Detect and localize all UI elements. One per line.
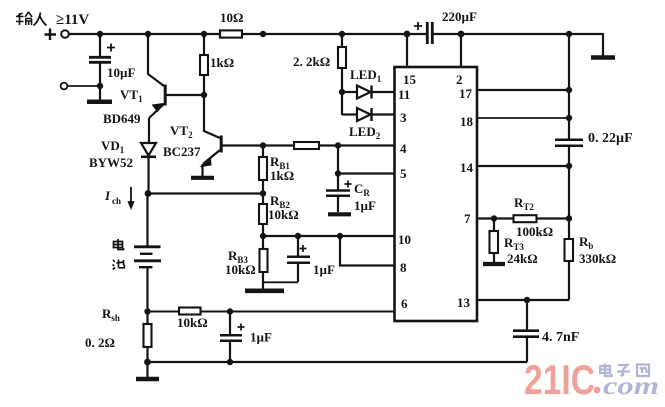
resistor RB2 — [259, 204, 267, 224]
svg-text:6: 6 — [401, 296, 408, 311]
resistor RT2 — [514, 215, 537, 222]
svg-text:1µF: 1µF — [250, 330, 272, 345]
svg-text:18: 18 — [460, 114, 474, 129]
svg-text:≥11V: ≥11V — [56, 12, 89, 28]
resistor RB1 — [259, 157, 267, 180]
svg-text:BD649: BD649 — [103, 111, 141, 126]
capacitor 10uF — [89, 34, 115, 100]
ground 10uF — [87, 100, 112, 105]
wire top rail left — [69, 33, 220, 35]
wire bottom rail — [148, 361, 528, 363]
svg-text:10Ω: 10Ω — [220, 10, 243, 25]
wire 2.2k resistor stem — [341, 34, 343, 115]
svg-text:5: 5 — [400, 166, 407, 181]
svg-text:10kΩ: 10kΩ — [268, 207, 299, 222]
label dianchi (battery) chinese glyphs — [113, 239, 125, 270]
svg-text:4. 7nF: 4. 7nF — [542, 330, 579, 345]
svg-text:220µF: 220µF — [442, 9, 477, 24]
ground Rsh — [136, 362, 159, 379]
resistor Rsh — [144, 324, 152, 347]
svg-text:8: 8 — [400, 260, 407, 275]
ground right top — [591, 55, 615, 60]
svg-text:17: 17 — [459, 86, 473, 101]
capacitor 4.7nF — [513, 300, 539, 362]
LED1 — [342, 86, 394, 99]
wire RB chain vertical — [262, 146, 264, 290]
svg-text:1µF: 1µF — [313, 262, 335, 277]
wire pin17 line — [477, 89, 569, 91]
transistor VT2 — [201, 136, 263, 177]
input terminal circle positive — [61, 30, 69, 38]
resistor 10R top — [220, 30, 242, 37]
wire node Ich horizontal — [148, 192, 263, 194]
wire battery top lead — [146, 194, 148, 246]
svg-text:2: 2 — [456, 72, 463, 87]
wire pin14 line — [477, 165, 569, 167]
svg-text:1µF: 1µF — [354, 198, 376, 213]
resistor 2.2k — [338, 47, 346, 68]
capacitor 220uF — [414, 22, 432, 44]
battery BT — [134, 247, 161, 267]
wire pin4 line — [263, 144, 394, 146]
svg-text:7: 7 — [464, 211, 471, 226]
input terminal circle negative — [61, 83, 68, 90]
diode VD1 — [141, 143, 156, 193]
svg-text:BYW52: BYW52 — [89, 155, 133, 170]
input plus terminal marker — [45, 29, 57, 41]
resistor RT3 stem and ground — [483, 219, 505, 265]
resistor bodies — [144, 30, 574, 347]
wire pin13 line — [477, 299, 569, 301]
capacitor CR — [326, 146, 352, 213]
svg-text:com: com — [603, 373, 659, 400]
svg-text:100kΩ: 100kΩ — [516, 224, 553, 239]
wire VT2 collector — [204, 95, 220, 138]
svg-text:0. 22µF: 0. 22µF — [588, 131, 633, 146]
svg-text:1kΩ: 1kΩ — [210, 55, 234, 70]
capacitor 1uF bottom — [220, 312, 245, 363]
svg-text:0. 2Ω: 0. 2Ω — [85, 335, 115, 350]
resistor 1k collector — [200, 55, 208, 75]
wire 1k collector resistor stem — [203, 34, 205, 95]
svg-text:13: 13 — [457, 295, 471, 310]
wire pin15 top stem — [406, 34, 408, 67]
svg-text:330kΩ: 330kΩ — [579, 251, 616, 266]
wire top rail right — [432, 33, 603, 35]
svg-text:24kΩ: 24kΩ — [507, 251, 538, 266]
resistor Rb — [565, 239, 574, 261]
wire pin10 line — [263, 235, 394, 237]
svg-text:10kΩ: 10kΩ — [225, 262, 256, 277]
svg-text:10kΩ: 10kΩ — [177, 315, 208, 330]
capacitor 0.22uF — [555, 34, 583, 300]
label shuru (input) chinese glyphs — [16, 12, 47, 26]
ground VT2 — [191, 176, 214, 180]
svg-text:10: 10 — [398, 232, 411, 247]
wire pin18 line — [477, 117, 569, 119]
wire pin5 line — [338, 172, 394, 174]
wire battery bottom lead — [146, 268, 148, 362]
watermark dianziwang chinese glyphs — [600, 364, 649, 377]
wire VT1 collector drop — [148, 34, 164, 86]
svg-text:1kΩ: 1kΩ — [270, 168, 294, 183]
resistor RT3 — [490, 231, 499, 253]
svg-text:2. 2kΩ: 2. 2kΩ — [293, 54, 330, 69]
wire pin2 top stem — [460, 34, 462, 67]
wire lower input — [68, 85, 100, 87]
svg-text:ch: ch — [112, 196, 121, 206]
wire top rail middle — [242, 33, 427, 35]
capacitor 1uF middle — [263, 236, 310, 282]
current arrow Ich — [128, 187, 134, 209]
transistor VT1 — [149, 85, 204, 144]
ground RB3 — [245, 288, 284, 293]
wire pin8 link — [340, 236, 394, 266]
watermark 21IC — [524, 356, 600, 403]
svg-text:15: 15 — [403, 72, 417, 87]
svg-text:11: 11 — [398, 87, 410, 102]
svg-text:I: I — [104, 188, 111, 203]
resistor RB3 — [260, 249, 268, 272]
ground CR — [328, 212, 351, 216]
svg-text:14: 14 — [460, 160, 474, 175]
svg-text:BC237: BC237 — [163, 144, 201, 159]
node VIN input label — [56, 12, 89, 28]
svg-text:21IC: 21IC — [524, 356, 595, 403]
wire pin7 line — [477, 217, 569, 219]
wire right rail drop to ground — [602, 33, 604, 56]
resistor 10k bottom — [179, 308, 201, 315]
wire pin6 rail — [148, 311, 395, 313]
svg-text:4: 4 — [400, 141, 407, 156]
LED2 — [342, 108, 394, 121]
svg-text:10µF: 10µF — [107, 65, 135, 80]
op IC U1 box — [395, 67, 478, 321]
svg-text:3: 3 — [400, 110, 407, 125]
resistor pin4 series — [294, 142, 319, 149]
